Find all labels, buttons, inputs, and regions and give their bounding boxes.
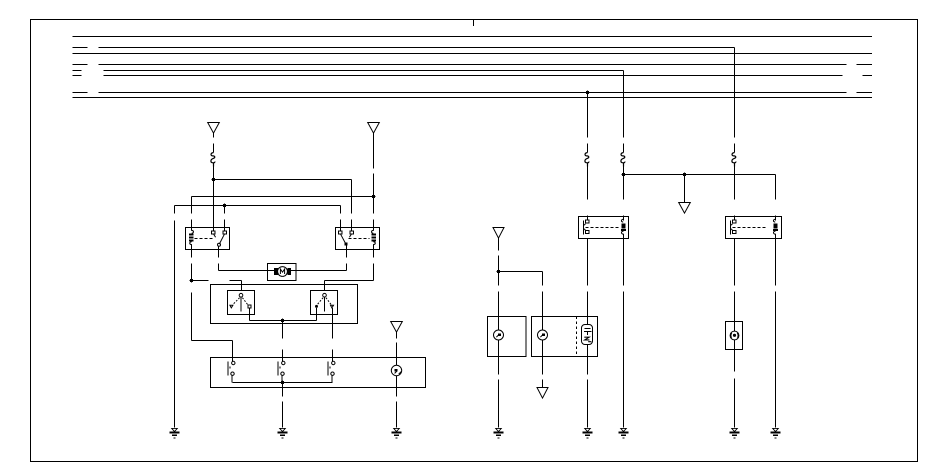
fuse F1 [211,153,215,167]
washer pump P1 [391,365,401,375]
wire relay R2 coil down to ground G8 [775,239,777,428]
washer switch box [211,358,426,388]
wire triangle E down to node H [498,238,500,271]
wire bus 7 down to fuse F2 [587,93,589,153]
fuse F3 [621,153,625,167]
wire drop to relay L2 switch [340,206,342,228]
wire node E down [282,321,284,358]
ground G2 [278,428,288,438]
wire long drop to ground G1 [174,206,176,428]
node E junction [281,319,285,323]
wire bus 5 down to fuse F3 [623,71,625,153]
fuse F2 [585,153,589,167]
wire relay L1 coil down to node D [191,250,193,281]
wire [396,332,398,365]
relay L1 box [186,228,230,250]
wire node G down [684,175,686,203]
wire node D down right to washer switch [192,293,233,358]
relay L2 coil [372,228,377,250]
wire node C down to relay L1 switch [224,206,226,228]
switch unit SL [228,291,255,315]
node bus7 junction [586,91,590,95]
connector triangle E [493,228,504,239]
wire bus 2 down to fuse F4 [734,48,736,153]
wire node A down to relay L1 switch [213,180,215,228]
wire relay L2 common to motor [288,250,347,271]
bus wire 8 [73,97,873,99]
bus wire 3 [73,53,873,55]
wire box A to ground G4 [498,357,500,428]
ground G1 [170,428,180,438]
washer level switch [582,325,593,345]
dashed divider [576,317,578,357]
box A washer motor [488,317,527,357]
connector triangle D [679,203,691,214]
wire drop to relay L1 coil [191,197,193,228]
connector triangle B [368,123,380,134]
wire to ground G2 [282,383,284,428]
wire SL output to SR [250,308,317,321]
wire A to relay L2 switch [214,180,352,228]
wire fuse F3 to relay R1 coil [623,167,625,221]
ground G6 [619,428,629,438]
ground G5 [583,428,593,438]
bus wire 4 [73,64,873,66]
wire washer switch bus [233,382,333,384]
wire node F right to relay R2 coil [624,175,776,221]
relay L1 switch [195,228,227,250]
wiper motor M1 [268,264,297,281]
wire relay R1 coil down to ground G6 [623,239,625,428]
wire relay R2 switch down to box C [734,239,736,322]
relay L1 coil [189,228,194,250]
bus wire 6 [73,75,873,77]
relay R1 box [579,217,629,239]
ground G3 [392,428,402,438]
wire fuse F2 to relay R1 switch [587,167,589,221]
wire to ground G3 [396,376,398,428]
wire [213,133,215,152]
connector triangle A [208,123,220,134]
fuse F4 [732,153,736,167]
relay R1 coil [621,217,626,239]
wire triangle B down to relay L2 coil [373,133,375,227]
wire node H right down to box B [499,272,543,317]
ground G7 [730,428,740,438]
relay R2 box [726,217,782,239]
relay R2 switch [731,220,768,235]
wire box B motor down to triangle F [542,357,544,388]
wire SR output down [332,308,334,358]
wire box C to ground G7 [734,350,736,428]
node H junction [497,270,501,274]
wire level switch to ground G5 [587,357,589,428]
connector triangle C [391,322,403,333]
ground G8 [771,428,781,438]
box B washer motor + level switch [532,317,598,357]
bus wire 1 [73,36,873,38]
wire relay L1 common to motor [219,250,278,271]
node C junction [223,204,227,208]
relay R2 coil [773,217,778,239]
ground G4 [494,428,504,438]
node D junction [190,279,194,283]
bus wire 2 [73,47,735,49]
relay L2 box [336,228,380,250]
relay L2 switch [339,228,370,250]
wire node D to wiper switch input [192,281,242,291]
bus wire 5 [73,70,624,72]
node B junction [372,195,376,199]
relay R1 switch [584,220,620,235]
wire relay L2 coil down left into wiper switch [325,250,374,291]
wire [213,167,215,180]
node A junction [212,178,216,182]
node S junction [281,381,285,385]
wire C horizontal [175,205,341,207]
horn symbol [730,292,739,350]
wire fuse F4 to relay R2 switch [734,167,736,221]
wire B horizontal [192,196,374,198]
switch contact S3 [328,358,335,383]
switch contact S1 [228,358,235,383]
wire node H down to box A [498,272,500,317]
pump motor B [538,317,548,357]
connector triangle F [537,388,548,399]
wire through level switch [587,317,589,357]
box C horn [726,322,743,350]
wiper switch box [211,285,358,324]
wire relay R1 switch down to washer level switch [587,239,589,317]
node G junction [683,173,687,177]
node F junction [622,173,626,177]
bus wire 7 [73,92,873,94]
switch unit SR [311,291,338,315]
switch contact S2 [278,358,285,383]
pump motor A [494,317,504,357]
